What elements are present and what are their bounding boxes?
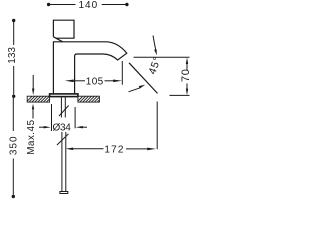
leader arrow to stream line — [129, 85, 146, 92]
extension line from spout outlet — [121, 61, 123, 85]
svg-text:140: 140 — [78, 0, 98, 11]
svg-text:Max.45: Max.45 — [26, 120, 37, 155]
dimension 70 — [169, 57, 192, 95]
svg-text:350: 350 — [9, 135, 20, 155]
supply pipe — [60, 97, 68, 193]
leader arrow to outlet line — [153, 36, 157, 56]
pipe end cap — [60, 192, 68, 194]
svg-text:172: 172 — [104, 144, 124, 155]
dimension Max.45 — [26, 75, 37, 155]
vertical reference line from stream end — [156, 102, 158, 150]
faucet handle — [53, 20, 74, 42]
svg-text:133: 133 — [7, 47, 18, 64]
base plate — [50, 94, 78, 97]
pipe break mark upper — [59, 106, 69, 117]
svg-text:105: 105 — [86, 76, 104, 87]
dimension 105 — [65, 61, 123, 87]
dimension 140 top — [47, 0, 129, 11]
dimension 172 — [66, 144, 157, 155]
svg-text:70: 70 — [180, 69, 192, 82]
dimension 350 lower left — [9, 98, 20, 198]
countertop hatched left — [27, 96, 49, 102]
svg-text:Ø34: Ø34 — [52, 122, 71, 133]
svg-text:45°: 45° — [146, 55, 164, 76]
countertop hatched right — [78, 96, 100, 102]
outlet level reference line — [134, 56, 190, 58]
dimension Ø34 — [39, 104, 87, 133]
pipe break mark lower — [57, 134, 69, 145]
45 deg stream line — [129, 63, 158, 94]
faucet body and spout outline — [53, 42, 126, 94]
lever underside diagonal — [53, 37, 62, 42]
dimension 133 left — [7, 19, 18, 98]
